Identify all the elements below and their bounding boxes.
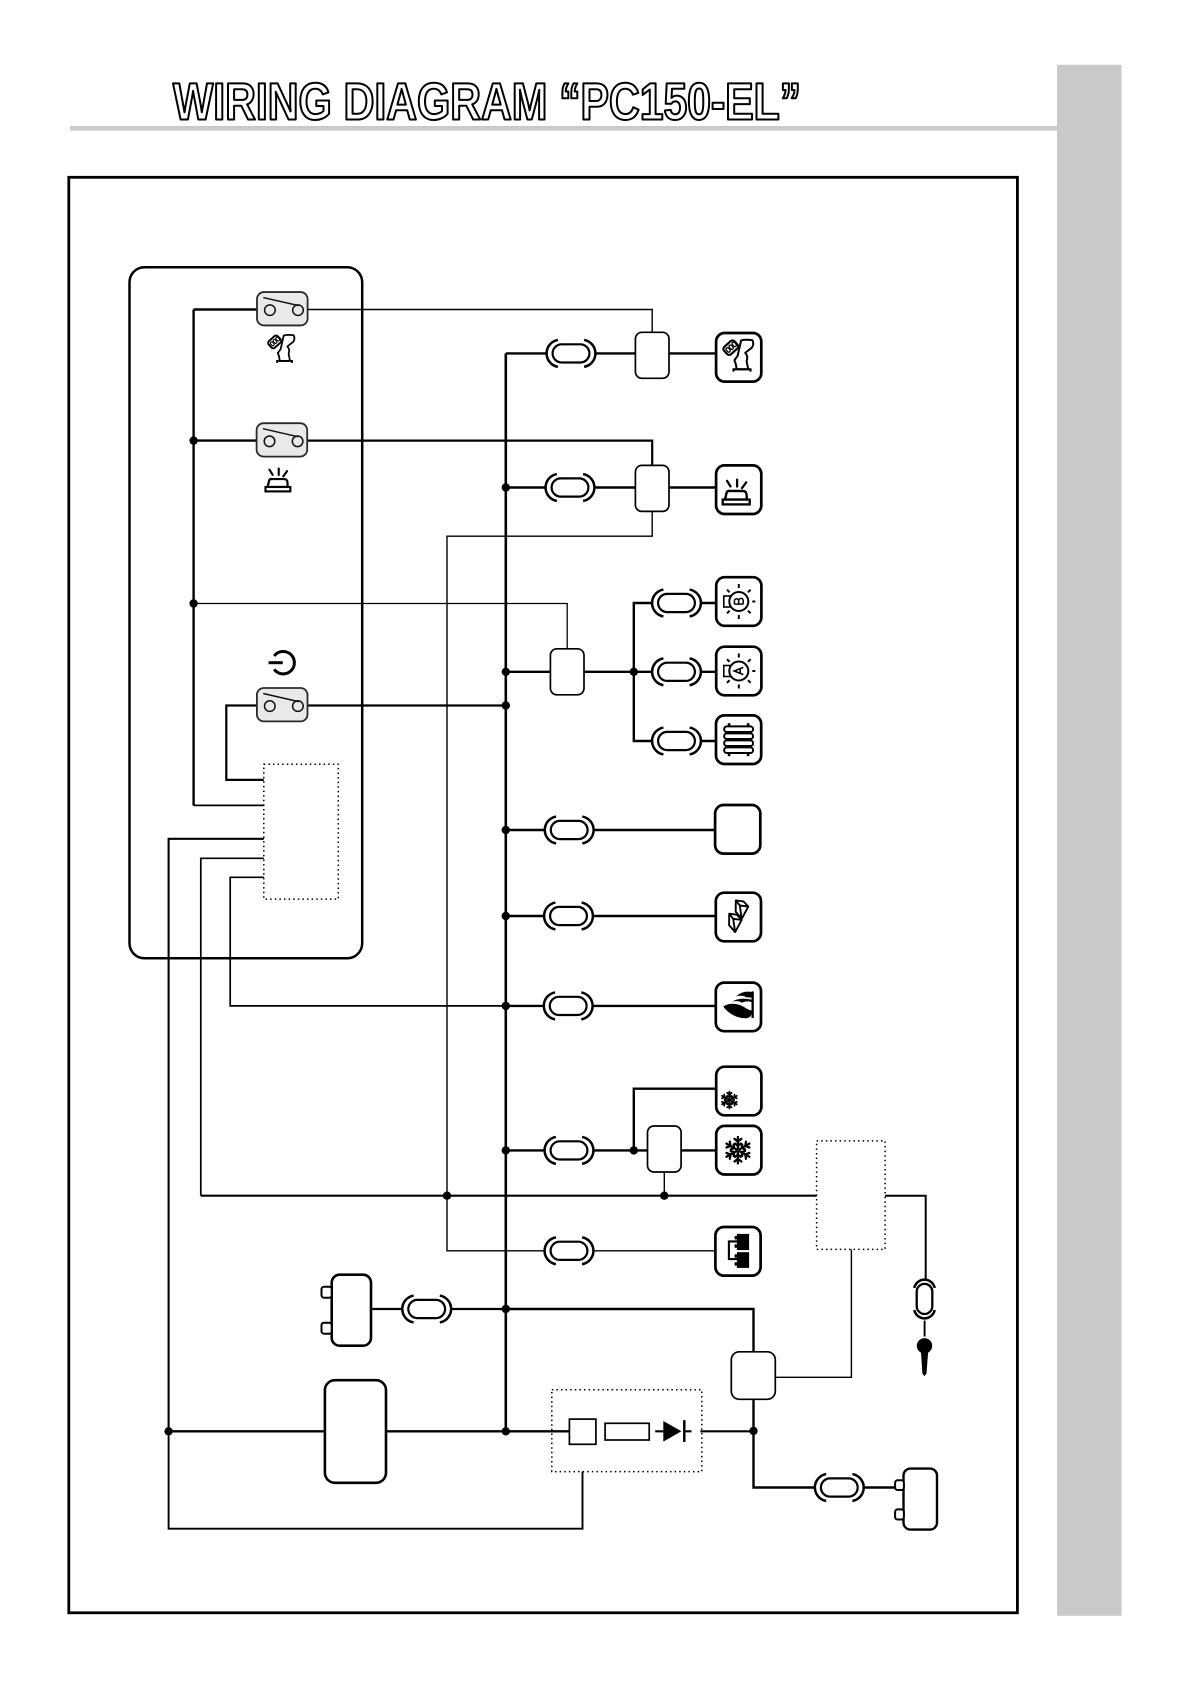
power symbol [269, 652, 295, 674]
title: WIRING DIAGRAM "PC150-EL" [173, 83, 798, 120]
wire: charger unit U3 bottom return loop to battery node [169, 1431, 583, 1528]
icon box: battery contacts [715, 1227, 760, 1276]
wire: bus to connector X9 to node B to relay K4 [506, 1149, 648, 1151]
wire: node A branch up to connector X3 and lamp B [634, 603, 717, 672]
relay K2 [635, 465, 669, 511]
wire: switch S3 left pin to control unit U1 port 1 [226, 706, 263, 780]
wire: control unit U1 port 3 down to battery node [169, 839, 264, 1432]
connector X4 [652, 658, 701, 685]
icon box: chemical [716, 893, 761, 942]
relay K4 [648, 1126, 682, 1172]
wire: bus node to relay K5 top [506, 1309, 754, 1352]
node: drop / supply line [443, 1192, 451, 1200]
wire: relay K4 bottom pin to supply line [663, 1172, 665, 1196]
relay K3 [550, 649, 584, 695]
connector X6 [545, 817, 594, 844]
icon box: heater E1 [716, 715, 761, 764]
icon box: lamp A [716, 647, 761, 696]
node: bus / X9 row [502, 1146, 510, 1154]
wire: bus to connector X1 to relay K1 to icon H1 [506, 352, 716, 354]
pump M1 [332, 1275, 371, 1346]
motor M2 (bottom right) [904, 1469, 938, 1530]
icon box: antifreeze small [716, 1067, 761, 1116]
wire: bus to connector X7 and chemical icon [506, 915, 716, 917]
horizontal rule under title [70, 126, 1057, 131]
wire: bus to connector X2 to relay K2 to icon H2 [506, 486, 717, 488]
switch S3 (power) [257, 688, 308, 721]
connector X7 [544, 903, 593, 930]
icon box H2: beacon [716, 465, 761, 514]
wire: control unit U1 port 5 to burner row [230, 877, 506, 1006]
relay K1 [635, 332, 669, 378]
control unit U1 (dotted box) [264, 764, 339, 899]
diagram border [69, 177, 1018, 1613]
wire: switch S2 right pin to relay K2 coil [308, 441, 653, 466]
node: panel bus / S2 [189, 436, 197, 444]
node: bus / X7 row [502, 912, 510, 920]
ignition unit U2 (dotted box) [817, 1141, 886, 1250]
wire: battery row: node to battery G1 to bus end [169, 1430, 325, 1432]
node B: relay K4 input [630, 1146, 638, 1154]
connector X12 [815, 1474, 864, 1501]
motor M2 tab 1 [895, 1480, 904, 1490]
wire: panel bus node to relay K3 coil [194, 604, 568, 649]
connector X3 [652, 590, 701, 617]
wire: switch S1 right pin to relay K1 coil [308, 310, 653, 333]
wire: relay K2 bottom pin down-left to long drop [447, 511, 652, 1195]
wire: ignition unit U2 to key connector X13 [885, 1196, 926, 1279]
wire: bus to relay K3 to node A to connector X4 to lamp A [506, 671, 717, 673]
node: bus / K3 row [502, 668, 510, 676]
charger U3: transformer rect [605, 1423, 649, 1440]
wire: bus to connector X8 and burner icon [506, 1005, 716, 1007]
wire: pump M1 to connector X11 to bus [371, 1308, 506, 1310]
wire: node B branch up to antifreeze small icon [634, 1089, 716, 1151]
node: bus / X2 row [502, 483, 510, 491]
connector X1 [547, 340, 596, 367]
control panel enclosure [130, 267, 363, 958]
beacon icon inside panel [265, 469, 290, 492]
icon box: antifreeze large [716, 1126, 761, 1175]
wire: node A branch down to connector X5 and heater E1 [634, 672, 716, 741]
node: bus end at battery row [502, 1427, 510, 1435]
node: battery left [164, 1427, 172, 1435]
wire: switch S2 left pin to panel bus [194, 439, 257, 441]
battery G1 [325, 1380, 386, 1483]
wire: control unit U1 port 4 down and across to ignition unit U2 [201, 858, 264, 1195]
connector X9 [545, 1137, 594, 1164]
wire: main distribution bus [504, 353, 507, 1431]
connector X2 [546, 474, 595, 501]
charger unit U3 (dotted box) [552, 1390, 702, 1472]
node: K4 bottom / supply line [660, 1192, 668, 1200]
wire: relay K5 right pin up to ignition unit U2 bottom [775, 1249, 851, 1377]
node: bus / pump row [502, 1305, 510, 1313]
switch S2 (beacon) [257, 423, 308, 456]
key symbol [924, 1321, 926, 1337]
wire: switch S3 right pin to main bus [308, 704, 506, 706]
wire: relay K5 bottom down to connector X12 and motor [754, 1399, 904, 1487]
wire: switch S1 left pin to panel bus [194, 308, 258, 310]
motor M2 tab 2 [895, 1509, 904, 1519]
icon box: lamp B [716, 577, 761, 626]
pump M1 tab 2 [322, 1323, 332, 1334]
gun icon inside panel [267, 335, 294, 363]
wire: relay K4 to antifreeze large icon [681, 1149, 716, 1151]
pump M1 tab 1 [322, 1287, 332, 1298]
switch S1 (gun) [257, 292, 308, 325]
icon box: spare (empty) [715, 805, 760, 854]
wire: drop node to connector X10 and level sensor icon [447, 1196, 716, 1251]
node: bus / X6 row [502, 826, 510, 834]
node: bus / S3 wire [502, 701, 510, 709]
wire: bus to connector X6 and spare box [506, 829, 715, 831]
connector X8 [544, 992, 593, 1019]
icon box H1: gun [716, 333, 761, 382]
wire: panel bus from switch S1 down to control unit U1 port 2 [192, 310, 194, 806]
wire: rectifier output through diode V1 to relay K5 node [655, 1430, 753, 1432]
connector X10 [545, 1237, 594, 1264]
diode V1 [663, 1421, 681, 1442]
connector X13 (key, vertical) [914, 1280, 934, 1319]
charger U3: input square [569, 1419, 596, 1444]
connector X11 [402, 1296, 451, 1323]
connector X5 [652, 728, 701, 755]
node A: relay K3 output [630, 668, 638, 676]
relay K5 [731, 1352, 775, 1400]
gray sidebar [1057, 65, 1122, 1616]
node: panel bus / K3 wire [189, 599, 197, 607]
node: bus / burner row [502, 1002, 510, 1010]
icon box: burner flame [716, 983, 761, 1032]
node: diode output / relay K5 [749, 1427, 757, 1435]
